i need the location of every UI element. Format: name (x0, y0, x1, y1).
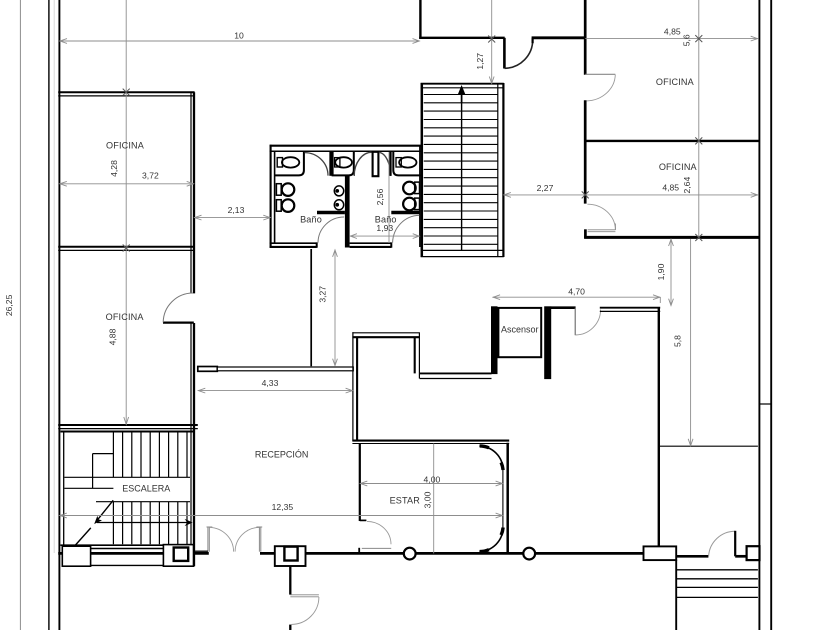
entry column box outer (275, 546, 306, 566)
svg-text:5,6: 5,6 (682, 34, 692, 46)
small column box bottom right (747, 546, 760, 560)
thin divider east room (659, 445, 758, 447)
svg-text:3,00: 3,00 (422, 491, 432, 508)
svg-text:1,90: 1,90 (656, 263, 666, 280)
stairs upper: top edge double (421, 84, 504, 88)
wall: top corridor horizontal left of door D1 (419, 37, 505, 39)
dim line 3,27 vertical (333, 250, 338, 366)
meter box on bottom wall right (644, 546, 677, 560)
sink counter 1 basin oval (282, 157, 299, 167)
svg-text:2,27: 2,27 (537, 183, 554, 193)
dim line 1,90 vertical (669, 239, 674, 306)
estar left wall upper segment (359, 444, 361, 522)
double entry door left leaf (207, 527, 213, 552)
estar door swing arc (367, 521, 391, 544)
svg-text:4,28: 4,28 (109, 160, 119, 177)
mid double-arch right arc (379, 152, 391, 176)
svg-text:5,8: 5,8 (672, 335, 682, 347)
svg-text:2,64: 2,64 (682, 177, 692, 194)
wall: left exterior inner line (53, 0, 55, 553)
sink counter 2 basin oval (335, 157, 352, 167)
reception step block: left wall (double) (353, 332, 357, 441)
door D3 leaf double line (588, 224, 616, 232)
elevator lobby: left bar (491, 306, 498, 374)
dim line 12,35 (59, 513, 503, 518)
svg-text:OFICINA: OFICINA (106, 312, 145, 322)
svg-text:4,85: 4,85 (662, 182, 679, 192)
door office lower-left: swing arc (163, 293, 193, 322)
estar top wall (double) (352, 441, 509, 444)
toilet 1 right bath bowl (403, 182, 416, 195)
escalera: top line (61, 431, 194, 433)
dim line 26,25 vertical far left (19, 0, 21, 630)
double entry door right leaf (256, 527, 262, 552)
left bath stall partition stub (317, 211, 345, 214)
svg-text:1,27: 1,27 (475, 53, 485, 70)
svg-text:12,35: 12,35 (272, 502, 294, 512)
escalera: landing winder lines (64, 454, 113, 489)
wall: right of elevator to door D5 (551, 306, 576, 309)
reception step block: right wall (double) (415, 333, 420, 379)
svg-text:3,27: 3,27 (317, 286, 327, 303)
dim line 4,00 (360, 481, 503, 486)
escalera: direction line with right arrow (97, 519, 193, 526)
svg-text:4,85: 4,85 (664, 26, 681, 36)
escalera: lower flight top line (96, 501, 190, 503)
sink counter 1 border (274, 151, 304, 175)
escalera: lower flight treads (113, 502, 187, 545)
sofa bottom arc caps (480, 528, 504, 552)
right exterior wall tick (759, 403, 771, 405)
urinal 1 on partition (334, 186, 343, 196)
svg-text:RECEPCIÓN: RECEPCIÓN (255, 449, 309, 459)
dim line 1,93 (350, 234, 420, 239)
sink counter 3 border (393, 151, 421, 175)
passage wall lower stub (289, 625, 291, 630)
dim line 2,56 vertical (388, 152, 390, 243)
bathroom block left wall (double) (271, 145, 275, 248)
stairs upper: direction arrow up (458, 85, 465, 103)
dim line 4,28 / 4,88 vertical center of offices (124, 0, 129, 425)
bathroom right wall inner line (419, 146, 421, 247)
svg-text:1,93: 1,93 (376, 223, 393, 233)
dim line 10 (top) (59, 39, 419, 44)
door D2 swing arc (587, 75, 616, 101)
escalera: bottom line (61, 544, 194, 546)
wall: top corridor horizontal right of door D1 with jamb (532, 38, 586, 43)
wall: right exterior outer line (770, 0, 772, 630)
door D3 swing arc (lower right office) (587, 204, 615, 229)
svg-text:4,88: 4,88 (108, 328, 118, 345)
escalera bottom strip: left box (62, 546, 90, 566)
svg-text:2,13: 2,13 (228, 205, 245, 215)
dim line 2,27 and 4,85 lower (503, 193, 758, 198)
dim line 4,70 (493, 295, 661, 303)
stall door jamb 1 (329, 151, 332, 176)
svg-text:OFICINA: OFICINA (656, 77, 695, 87)
bathroom block top wall (double) (270, 146, 422, 152)
wall: left exterior outer line (48, 0, 50, 630)
sink counter 2 tap box (335, 158, 340, 167)
corridor thin partition below bathrooms (310, 249, 312, 366)
entry column box inner (284, 547, 297, 561)
dim line 4,85 top right (585, 36, 758, 41)
door D6 swing arc (709, 531, 736, 556)
svg-text:OFICINA: OFICINA (106, 141, 145, 151)
dim line 3,00 vertical (433, 444, 435, 554)
wall: offices right wall inner line with door gap (190, 92, 192, 566)
svg-text:Baño: Baño (300, 215, 322, 225)
wall: right offices west wall middle segment (584, 100, 587, 203)
escalera bottom strip: middle band (91, 549, 164, 566)
passage wall below entry column (289, 566, 291, 595)
sofa top arc (479, 446, 503, 470)
passage door swing arc (291, 597, 319, 624)
wall: right exterior inner line (758, 0, 760, 630)
svg-text:4,00: 4,00 (424, 475, 441, 485)
toilet 1 right bath tank (415, 182, 420, 194)
left bath entry door arc (318, 217, 344, 243)
stairs upper: center divider (461, 88, 463, 251)
right bath stall partition stub (391, 211, 419, 214)
bathroom left bottom wall (double) (270, 242, 317, 247)
sink counter 3 basin oval (399, 157, 416, 167)
exterior steps bottom right (676, 570, 758, 598)
wall: upper office top (double) (58, 92, 194, 96)
svg-text:ESCALERA: ESCALERA (122, 483, 170, 493)
door D5 leaf (574, 308, 576, 336)
wall: right offices west wall top segment (584, 0, 587, 75)
sink counter 2 border (333, 151, 354, 175)
svg-text:ESTAR: ESTAR (390, 495, 421, 505)
dim line 3,72 (59, 181, 194, 186)
bottom main wall segment 1 (58, 552, 209, 555)
escalera bottom strip: inner thick square (174, 548, 189, 561)
stairs upper: right wall double (498, 83, 504, 257)
svg-text:4,70: 4,70 (568, 287, 585, 297)
sofa wall: thin mid line (502, 470, 504, 529)
wall: east room vertical (658, 308, 660, 557)
svg-text:Ascensor: Ascensor (501, 324, 539, 334)
svg-text:10: 10 (234, 31, 244, 41)
bathroom mid partition column (345, 176, 350, 248)
sink counter 3 tap box (396, 158, 401, 167)
toilet 2 right bath tank (415, 198, 420, 210)
door D1 swing arc (505, 39, 533, 68)
mid hanging wall bar (373, 152, 379, 176)
stairs upper: bottom landing double line (421, 250, 504, 256)
sofa top arc caps (480, 446, 504, 470)
stall door arc 1 (305, 153, 328, 176)
right bath entry door arc (393, 215, 420, 242)
toilet 2 left bath bowl (282, 199, 295, 212)
wall: right offices bottom (584, 236, 759, 239)
door office lower-left: leaf (163, 322, 194, 324)
dim cross markers on office center line (123, 89, 130, 252)
stairs upper: left wall (421, 83, 424, 257)
toilet 2 right bath bowl (403, 198, 416, 211)
stairs upper: treads (424, 95, 498, 245)
vestibule jamb tick right of stairs (194, 550, 208, 552)
double entry door left arc (210, 527, 234, 551)
elevator lobby: right bar (544, 306, 551, 379)
reception step block: top wall (double) (352, 333, 420, 337)
wall: top corridor vertical above stairs (419, 0, 421, 39)
bottom main wall segment 2 (260, 552, 645, 555)
sink counter 1 tap box (277, 158, 282, 167)
bottom wall segment 4 (735, 555, 746, 558)
escalera: diagonal break line with arrowhead (94, 500, 113, 524)
wall: left main wall full height (58, 0, 60, 630)
svg-text:4,33: 4,33 (262, 378, 279, 388)
estar door jamb tick on bottom wall (358, 548, 360, 554)
column circle 2 on bottom wall (523, 548, 535, 560)
toilet 1 left bath tank (276, 184, 281, 196)
escalera: upper flight treads (113, 432, 187, 477)
escalera: inner left line (63, 432, 65, 546)
wall: right offices west wall bottom cap (584, 229, 587, 238)
dim line 5,6 / 2,64 vertical (698, 0, 700, 238)
svg-text:OFICINA: OFICINA (659, 162, 698, 172)
stall door jamb 3 (389, 151, 392, 176)
escalera: second diagonal segment (75, 528, 91, 546)
exterior steps left edge (675, 560, 677, 630)
dim cross marker at 1,27 top (488, 36, 495, 43)
dim cross marker at 585 on 195 line (582, 191, 589, 198)
escalera: upper flight bottom line (64, 476, 190, 478)
wall: lower office bottom (double) (58, 425, 198, 429)
column circle 1 on bottom wall (404, 548, 416, 560)
corridor band stub (pilaster) (198, 367, 218, 372)
dim cross markers on 698 line (695, 35, 702, 241)
wall: offices right wall main line with door gap (193, 92, 195, 566)
passage door leaf double line (290, 595, 319, 597)
toilet 1 left bath bowl (282, 183, 295, 196)
estar door leaf (362, 547, 391, 549)
svg-text:26,25: 26,25 (4, 294, 14, 316)
mid double-arch left arc (354, 152, 372, 176)
bottom wall segment 3 (676, 555, 708, 558)
bathroom right bottom wall (double) (350, 242, 392, 247)
door D2 leaf (upper right office) (585, 73, 615, 75)
wall: divider between right offices (585, 140, 759, 142)
elevator cab (498, 308, 541, 357)
door D1 leaf (503, 38, 506, 69)
wall: right of door D5 (double) (600, 308, 660, 312)
toilet 2 left bath tank (276, 200, 281, 212)
wall: band left of elevator (double) (420, 373, 492, 378)
svg-text:3,72: 3,72 (142, 171, 159, 181)
sofa bottom arc (479, 528, 503, 552)
svg-text:2,56: 2,56 (375, 188, 385, 205)
estar door tick (360, 519, 367, 521)
dim line 5,8 vertical (688, 239, 693, 446)
door D5 swing arc (575, 310, 600, 336)
door D6 leaf (734, 531, 736, 557)
urinal 2 on partition (334, 200, 343, 210)
dim line 4,33 (198, 388, 353, 393)
corridor band wall to reception block (217, 367, 353, 371)
dim line 1,27 vertical (489, 0, 494, 84)
wall: upper office bottom (double) (58, 247, 194, 251)
sofa wall: thick right line (506, 443, 509, 555)
dim line 2,13 (194, 215, 271, 220)
double entry door right arc (235, 527, 259, 551)
escalera bottom strip: right box (163, 545, 193, 567)
